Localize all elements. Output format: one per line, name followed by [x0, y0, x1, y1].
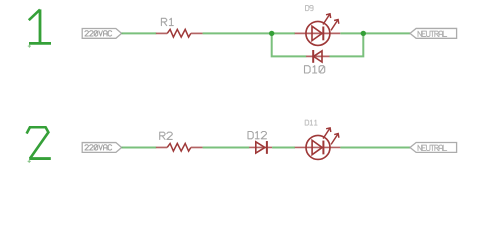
net flag 220VAC (row 2): [82, 143, 121, 153]
label D10: [305, 66, 325, 73]
label R1: [161, 18, 173, 25]
label D9: [306, 6, 314, 11]
wire LED D9 to NEUTRAL flag through node B: [340, 32, 410, 34]
LED D11: [295, 128, 341, 160]
origin cross of sheet label 1: [28, 45, 31, 48]
wire R2 to diode D12: [203, 146, 250, 148]
wire diode D10 up to node B: [330, 32, 364, 56]
wire 220VAC flag to R1: [122, 32, 157, 34]
origin cross of sheet label 2: [28, 160, 31, 163]
wire 220VAC flag to R2: [122, 146, 157, 148]
net label NEUTRAL (row 1): [418, 31, 447, 36]
wire R1 to LED D9 through node A: [203, 32, 295, 34]
sheet label 2: [27, 127, 51, 158]
wire LED D11 to NEUTRAL flag: [340, 146, 410, 148]
LED D9: [295, 14, 341, 46]
net label 220VAC (row 2): [85, 145, 112, 150]
resistor R1: [156, 29, 203, 37]
sheet label 1: [29, 9, 51, 43]
diode D10: [306, 50, 329, 63]
label D12: [248, 132, 266, 139]
resistor R2: [156, 143, 203, 151]
wire node A down to diode D10: [272, 32, 307, 56]
wire diode D12 to LED D11: [272, 146, 295, 148]
junction node A: [269, 31, 274, 36]
label D11: [305, 120, 317, 125]
net flag 220VAC (row 1): [82, 29, 121, 39]
net label 220VAC (row 1): [85, 31, 112, 36]
net flag NEUTRAL (row 1): [410, 28, 457, 38]
net label NEUTRAL (row 2): [418, 145, 447, 150]
net flag NEUTRAL (row 2): [410, 143, 457, 153]
diode D12: [249, 141, 272, 154]
label R2: [160, 132, 173, 139]
junction node B: [361, 31, 366, 36]
